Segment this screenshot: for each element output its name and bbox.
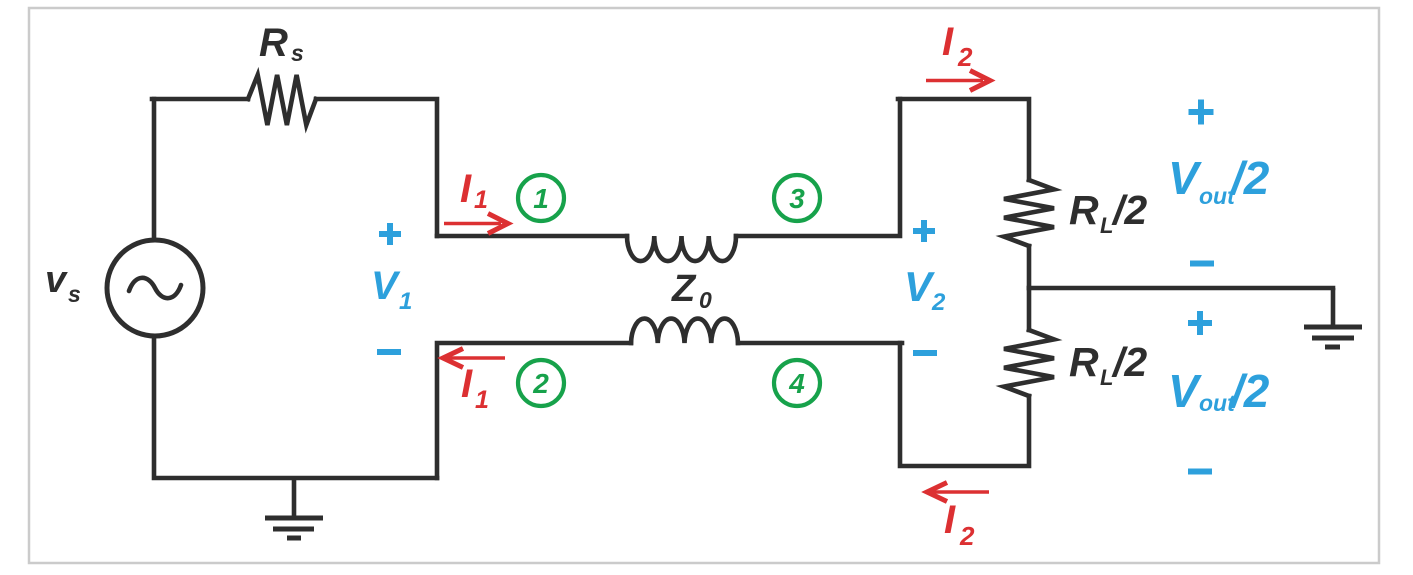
label V1 with polarity [371,223,412,352]
wire upper middle left segment [437,234,627,239]
svg-text:v: v [45,259,68,301]
current arrow I2 in (top right) [926,71,990,91]
label I2 bottom [944,498,975,551]
wire middle right to ground [1029,286,1333,291]
svg-text:2: 2 [532,368,549,399]
wire lower middle left segment [437,343,631,478]
svg-text:2: 2 [931,289,946,316]
node 1 [518,175,564,221]
svg-text:1: 1 [475,386,489,414]
svg-text:2: 2 [959,521,975,551]
resistor RL/2 bottom zigzag [1004,330,1054,396]
label RS value [259,21,304,66]
svg-text:/2: /2 [1229,152,1270,204]
wire mid node down to RL/2 bottom [1027,288,1032,330]
wire top left horizontal [152,97,248,102]
svg-text:s: s [291,40,304,66]
svg-text:I: I [461,362,473,406]
label RL/2 top [1069,187,1147,238]
wire bottom right loop [900,343,1029,466]
svg-text:/2: /2 [1111,339,1147,385]
svg-text:V: V [904,263,935,310]
wire lower middle right segment [738,341,902,346]
svg-text:4: 4 [788,368,805,399]
wire top right horizontal [898,99,1029,180]
label RL/2 bottom [1069,339,1147,390]
voltage source sine symbol [129,278,181,298]
svg-text:Z: Z [671,268,697,310]
svg-text:3: 3 [789,183,805,214]
voltage source VS circle [107,240,203,336]
wire from RL/2 top to mid node [1027,246,1032,288]
svg-text:V: V [371,264,401,308]
svg-text:1: 1 [399,288,412,315]
inductor Z0 top coil [627,236,736,261]
svg-text:R: R [1069,339,1099,385]
wire left vertical top (source to Rs) [152,99,157,241]
svg-text:1: 1 [533,183,549,214]
svg-text:/2: /2 [1229,365,1270,417]
label I1 top [460,167,488,214]
svg-text:/2: /2 [1111,187,1147,233]
node 3 [774,175,820,221]
resistor RL/2 top zigzag [1004,180,1054,246]
ground right [1304,288,1362,347]
current arrow I1 return (bottom) [443,349,505,368]
wire bottom left horizontal [154,335,437,478]
label Vout/2 bottom with polarity [1168,311,1270,472]
label Z0 value [671,268,712,313]
svg-text:I: I [944,498,956,542]
svg-text:V: V [1168,365,1202,417]
label I1 bottom [461,362,489,414]
ground left [265,478,323,538]
inductor Z0 bottom coil [631,319,738,343]
wire top to corner [316,99,437,236]
resistor RS zigzag [248,75,316,125]
svg-text:I: I [942,20,954,64]
current arrow I1 in (top) [444,214,508,234]
svg-text:L: L [1100,365,1113,390]
svg-text:R: R [1069,187,1099,233]
svg-text:0: 0 [699,287,712,313]
label I2 top [942,20,973,72]
svg-text:2: 2 [957,42,973,72]
svg-text:L: L [1100,213,1113,238]
svg-text:V: V [1168,152,1202,204]
svg-text:R: R [259,21,288,65]
current arrow I2 return (bottom right) [927,483,989,502]
label Vout/2 top with polarity [1168,100,1270,264]
label V2 with polarity [904,220,946,353]
svg-text:I: I [460,167,472,211]
node 2 [518,360,564,406]
svg-text:s: s [68,281,81,307]
node 4 [774,360,820,406]
label vs (source) [45,259,81,307]
wire upper middle right segment [736,99,900,236]
svg-text:1: 1 [474,186,488,214]
